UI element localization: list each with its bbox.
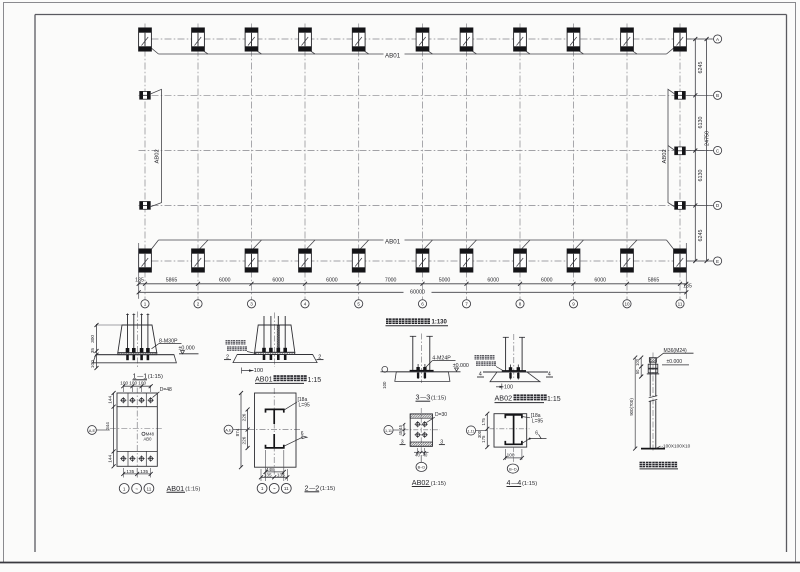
axis bubble row B right: [714, 91, 722, 99]
column top row axis 2: [192, 28, 205, 51]
1-1 bolt top thread marks: [126, 314, 149, 316]
inner border frame: [34, 15, 36, 553]
axis bubble 10 bottom: [623, 300, 631, 308]
axis bubble 8 bottom: [516, 300, 524, 308]
bolt piece shaft: [649, 358, 651, 397]
AB01 bottom leader diagonals: [152, 240, 674, 249]
AB02s column shaft: [505, 337, 507, 371]
svg-text:AB01: AB01: [385, 52, 401, 59]
svg-text:144: 144: [107, 455, 112, 463]
3-3 centre line: [420, 334, 422, 384]
svg-text:50: 50: [635, 369, 640, 374]
1-1 centre line: [137, 312, 139, 370]
svg-text:4: 4: [507, 478, 511, 487]
girt-to-column connector right middle: [668, 146, 675, 151]
svg-text:AB02: AB02: [662, 149, 668, 163]
svg-text:144: 144: [107, 396, 112, 404]
svg-text:226: 226: [241, 436, 246, 444]
label AB01 bottom: [384, 237, 405, 245]
1-1 ground line: [96, 354, 174, 356]
1-1 anchor heads: [126, 348, 150, 352]
3-3 ground line: [387, 371, 461, 373]
svg-text:(1:15): (1:15): [431, 396, 446, 402]
column bottom row axis 8: [514, 249, 527, 272]
svg-text:5000: 5000: [439, 278, 451, 284]
svg-text:E: E: [716, 259, 719, 264]
AB01s anchor bolts: [264, 316, 285, 352]
column bottom row axis 5: [352, 249, 365, 272]
4-4 centre line horizontal: [490, 428, 530, 430]
svg-text:135: 135: [135, 278, 144, 284]
svg-text:100: 100: [129, 381, 137, 386]
AB01s anchor heads: [262, 348, 287, 352]
column top row axis 10: [621, 28, 634, 51]
grid axis line 1 (vertical): [144, 24, 146, 300]
side wall column 1: [140, 91, 151, 99]
column bottom row axis 4: [299, 249, 312, 272]
AB01 top leader diagonals: [152, 48, 674, 54]
svg-text:100: 100: [635, 358, 640, 366]
svg-text:7: 7: [465, 302, 468, 307]
svg-text:A,E: A,E: [89, 428, 96, 433]
bottom title bar line: [0, 562, 800, 564]
svg-text:100: 100: [120, 381, 128, 386]
svg-text:1: 1: [143, 371, 147, 380]
svg-text:B~D: B~D: [418, 466, 426, 470]
svg-text:7000: 7000: [385, 278, 397, 284]
svg-text:175: 175: [481, 435, 486, 443]
svg-text:(1:15): (1:15): [431, 481, 446, 487]
svg-text:6130: 6130: [698, 117, 704, 129]
svg-text:100: 100: [138, 381, 146, 386]
svg-text:10: 10: [624, 302, 630, 307]
right extension lines: [686, 39, 712, 261]
svg-text:AB02: AB02: [495, 394, 513, 403]
svg-text:135: 135: [264, 472, 272, 477]
3-3 column shaft: [412, 336, 414, 370]
axis bubble row D right: [714, 201, 722, 209]
axis bubble 2 bottom: [194, 300, 202, 308]
svg-text:11: 11: [284, 486, 289, 491]
wall girt AB02 right: [668, 89, 675, 207]
4-4 channel with lips: [505, 415, 522, 444]
svg-text:175: 175: [481, 418, 486, 426]
4-4 outline rect: [494, 414, 527, 447]
svg-text:3: 3: [250, 302, 253, 307]
bolt piece title: [640, 462, 646, 468]
grid axis line 2 (vertical): [197, 24, 199, 300]
1-1 grout strip hatched: [118, 353, 157, 355]
svg-text:344: 344: [105, 422, 110, 430]
4-4 left axis bubble 1,11: [466, 426, 475, 435]
svg-text:(1:15): (1:15): [185, 487, 200, 493]
2-2 lower channel: [266, 434, 284, 448]
column top row axis 8: [514, 28, 527, 51]
AB02s centre line: [513, 334, 515, 379]
svg-text:1:15: 1:15: [308, 377, 322, 384]
2-2 outline rect: [255, 393, 297, 467]
svg-text:1:130: 1:130: [432, 320, 448, 326]
svg-text:100: 100: [504, 384, 513, 390]
svg-text:A,E: A,E: [225, 427, 232, 432]
side wall column 2: [140, 202, 151, 210]
svg-text:8: 8: [519, 302, 522, 307]
svg-text:AB01: AB01: [385, 238, 401, 245]
svg-text:±0.000: ±0.000: [667, 359, 683, 365]
svg-text:1: 1: [123, 486, 126, 491]
AB02p bottom dims 40/40: [417, 448, 419, 455]
column bottom row axis 6: [416, 249, 429, 272]
1-1 anchor bolts: [128, 314, 148, 353]
svg-text:6000: 6000: [594, 278, 606, 284]
svg-text:B: B: [716, 93, 719, 98]
wall girt AB02 left: [150, 89, 162, 207]
AB01p strip cell dividers: [127, 393, 129, 407]
AB01p bottom axis bubbles 1,~,11: [119, 484, 129, 494]
AB02p bottom bubble B~D: [420, 455, 422, 462]
axis bubble 6 bottom: [418, 300, 426, 308]
svg-text:11: 11: [147, 486, 152, 491]
1-1 foundation trapezoid: [93, 355, 176, 363]
svg-text:226: 226: [241, 413, 246, 421]
AB01p outline rect: [117, 393, 157, 466]
svg-text:3: 3: [416, 393, 420, 402]
svg-text:100: 100: [254, 368, 263, 374]
bottom bay dim texts: [135, 278, 692, 290]
svg-text:D=48: D=48: [160, 387, 172, 393]
AB01p inner strip lines: [117, 406, 157, 408]
svg-text:~: ~: [135, 486, 138, 491]
bottom dimension line 1 (bays): [139, 283, 687, 285]
plan title (bolt layout plan): [386, 318, 392, 324]
side wall column 3: [675, 91, 686, 99]
bottom extension edge lines: [138, 243, 140, 299]
svg-text:4: 4: [517, 478, 521, 487]
axis bubble 9 bottom: [569, 300, 577, 308]
svg-text:5: 5: [357, 302, 360, 307]
4-4 weld mark 6: [529, 438, 531, 440]
column top row axis 5: [352, 28, 365, 51]
svg-text:6245: 6245: [698, 230, 704, 242]
AB01s embedded bolt (hatched): [277, 326, 279, 353]
AB01p left axis bubble A-E: [88, 426, 97, 435]
svg-text:60000: 60000: [410, 289, 425, 295]
svg-text:6000: 6000: [219, 278, 231, 284]
AB02p bolts: [415, 421, 421, 427]
2-2 centre lines: [273, 388, 275, 475]
svg-text:L=95: L=95: [299, 403, 310, 409]
svg-text:5865: 5865: [648, 278, 660, 284]
side wall column 4: [675, 147, 686, 155]
svg-text:6000: 6000: [326, 278, 338, 284]
svg-text:40: 40: [423, 452, 428, 457]
svg-text:45: 45: [398, 424, 403, 429]
axis bubble row C right: [714, 146, 722, 154]
AB02p left dims 45/45: [403, 424, 405, 435]
svg-text:AB02: AB02: [412, 478, 430, 487]
svg-text:-100X100X10: -100X100X10: [662, 443, 691, 448]
AB01s note C30 grout (2 lines): [226, 340, 230, 344]
grid axis line 6 (vertical): [422, 24, 424, 300]
AB01s anchor hooks: [263, 355, 287, 360]
AB02p centre lines: [420, 408, 422, 453]
svg-text:100: 100: [90, 360, 96, 368]
bolt piece dim line inner (100/50): [640, 358, 642, 377]
right dimension line (inner, 6245/6130): [694, 39, 696, 261]
grid axis line 9 (vertical): [573, 24, 575, 300]
4-4 left dim lines: [486, 414, 488, 447]
svg-text:6: 6: [535, 430, 538, 436]
AB02s dim 100 with arrow: [501, 384, 503, 390]
grid axis line 7 (vertical): [466, 24, 468, 300]
grid axis line row A (horizontal): [139, 38, 714, 40]
bottom dimension line 2 (total 60000): [139, 291, 404, 293]
svg-text:100: 100: [382, 381, 387, 389]
svg-text:11: 11: [678, 302, 683, 307]
AB02s base plate: [502, 370, 526, 372]
column top row axis 9: [567, 28, 580, 51]
column top row axis 7: [460, 28, 473, 51]
2-2 upper channel: [266, 409, 284, 424]
AB01p bottom dims 135: [121, 468, 152, 478]
column bottom row axis 11: [674, 249, 687, 272]
eave strut line AB01 top: [159, 53, 667, 55]
svg-text:135: 135: [277, 472, 285, 477]
3-3 section cut circle left: [382, 366, 388, 372]
2-2 left dim lines: [247, 409, 249, 448]
svg-text:AB01: AB01: [255, 374, 273, 383]
grid axis line 10 (vertical): [626, 24, 628, 300]
2-2 bottom dims: [265, 450, 267, 481]
grid axis line 4 (vertical): [304, 24, 306, 300]
svg-text:AB0: AB0: [144, 437, 153, 442]
svg-text:6000: 6000: [487, 278, 499, 284]
4-4 bottom dim 100: [504, 449, 506, 460]
axis bubble 7 bottom: [462, 300, 470, 308]
grid axis line row D (horizontal): [139, 204, 714, 206]
AB02s anchor bolts: [510, 365, 512, 380]
svg-text:35: 35: [90, 348, 96, 354]
AB01p centre lines: [136, 388, 138, 473]
svg-text:AB02: AB02: [155, 149, 161, 163]
side wall column 5: [675, 202, 686, 210]
svg-text:3: 3: [426, 393, 430, 402]
column bottom row axis 2: [192, 249, 205, 272]
column top row axis 1: [139, 28, 152, 51]
1-1 grout pedestal trapezoid: [118, 325, 157, 353]
svg-text:135: 135: [683, 284, 692, 290]
grid axis line row E (horizontal): [139, 260, 714, 262]
svg-text:2: 2: [197, 302, 200, 307]
AB01s grout strip hatched: [255, 352, 295, 354]
axis bubble 1 bottom: [141, 300, 149, 308]
svg-text:40: 40: [415, 452, 420, 457]
svg-text:2: 2: [305, 483, 309, 492]
AB01p bolts bottom row: [120, 456, 154, 462]
AB02p flange hatched bands: [410, 414, 432, 418]
column bottom row axis 3: [245, 249, 258, 272]
svg-text:1,11: 1,11: [467, 429, 474, 433]
AB02s note C30 grout: [475, 355, 479, 359]
column top row axis 11: [674, 28, 687, 51]
grid axis line 3 (vertical): [251, 24, 253, 300]
2-2 left axis bubble: [224, 425, 233, 434]
2-2 bottom axis bubbles: [257, 483, 267, 493]
axis bubble 4 bottom: [301, 300, 309, 308]
bolt piece break marks: [649, 396, 658, 398]
axis bubble 3 bottom: [247, 300, 255, 308]
grid axis line 11 (vertical): [679, 24, 681, 300]
svg-text:5865: 5865: [166, 278, 178, 284]
axis bubble 11 bottom: [676, 300, 684, 308]
AB01p top dim line 100x3: [121, 384, 152, 392]
svg-text:135: 135: [126, 469, 134, 474]
column top row axis 6: [416, 28, 429, 51]
grid axis line row B (horizontal): [139, 94, 714, 96]
svg-text:L=95: L=95: [532, 419, 543, 425]
svg-text:~: ~: [273, 486, 276, 491]
svg-text:135: 135: [140, 469, 148, 474]
svg-text:300: 300: [477, 430, 482, 438]
axis bubble row A right: [714, 35, 722, 43]
svg-text:1:15: 1:15: [547, 396, 561, 403]
3-3 column break marks: [410, 335, 416, 337]
label AB01 top: [384, 51, 405, 59]
axis bubble row E right: [714, 257, 722, 265]
column bottom row axis 9: [567, 249, 580, 272]
svg-text:(1:15): (1:15): [148, 374, 163, 380]
column top row axis 4: [299, 28, 312, 51]
AB01p left dim line: [113, 393, 115, 466]
grid axis line 5 (vertical): [358, 24, 360, 300]
svg-text:AB01: AB01: [167, 484, 185, 493]
3-3 anchor bolts: [417, 364, 419, 379]
AB02p left axis bubble 1,11: [384, 425, 393, 434]
svg-text:6: 6: [421, 302, 424, 307]
AB02s ground line: [483, 371, 548, 373]
svg-text:1,11: 1,11: [385, 429, 392, 433]
right dimension line (outer, 24750): [706, 39, 708, 261]
AB01p inner tag: [142, 432, 145, 435]
column bottom row axis 7: [460, 249, 473, 272]
svg-text:(1:15): (1:15): [522, 481, 537, 487]
grid axis line row C (horizontal): [139, 150, 714, 152]
column bottom row axis 1: [139, 249, 152, 272]
svg-text:(1:15): (1:15): [320, 486, 335, 492]
AB01p bolts top row: [120, 397, 154, 403]
AB01s centre line: [274, 313, 276, 368]
svg-text:6000: 6000: [272, 278, 284, 284]
svg-text:6000: 6000: [541, 278, 553, 284]
AB01s ground line: [237, 354, 313, 356]
svg-text:900(700): 900(700): [629, 398, 634, 416]
svg-text:D=30: D=30: [435, 412, 447, 418]
4-4 bottom bubble B~D: [513, 447, 515, 464]
svg-text:4: 4: [304, 302, 307, 307]
eave strut line AB01 bottom: [159, 239, 667, 241]
svg-text:9: 9: [572, 302, 575, 307]
svg-text:6245: 6245: [698, 62, 704, 74]
AB01s dim 100 with arrow: [241, 368, 243, 374]
bolt piece anchor plate: [641, 448, 665, 450]
svg-text:1: 1: [261, 486, 264, 491]
AB01s foundation trapezoid: [233, 355, 317, 363]
svg-text:24750: 24750: [705, 131, 711, 146]
grid axis line 8 (vertical): [519, 24, 521, 300]
svg-text:1: 1: [133, 371, 137, 380]
1-1 anchor hooks below: [126, 355, 149, 360]
bolt piece dim line outer 900(700): [634, 358, 636, 449]
svg-text:6130: 6130: [698, 170, 704, 182]
bolt piece centre line: [652, 353, 654, 453]
svg-text:1: 1: [144, 302, 147, 307]
3-3 base plate: [410, 370, 434, 372]
svg-text:448: 448: [266, 467, 274, 472]
column top row axis 3: [245, 28, 258, 51]
svg-text:300: 300: [90, 335, 96, 343]
AB02s foundation trapezoid: [490, 372, 540, 382]
column bottom row axis 10: [621, 249, 634, 272]
axis bubble 5 bottom: [355, 300, 363, 308]
AB02p outline rect: [410, 414, 432, 446]
svg-text:B~D: B~D: [509, 467, 517, 471]
bolt piece threaded top: [649, 358, 656, 363]
AB01s grout pedestal trapezoid: [255, 325, 295, 352]
svg-text:45: 45: [398, 430, 403, 435]
1-1 left dim line: [96, 324, 98, 369]
3-3 foundation trapezoid: [395, 372, 450, 382]
svg-text:2: 2: [315, 483, 319, 492]
bolt piece nuts and washer: [648, 364, 658, 368]
